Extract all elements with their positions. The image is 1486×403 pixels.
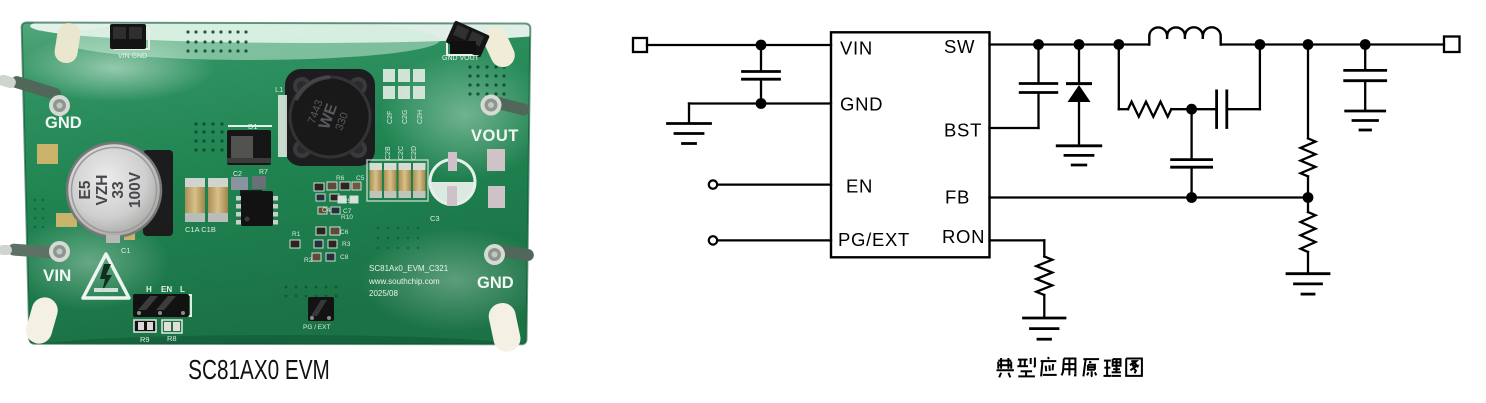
svg-text:C5: C5 [356, 175, 365, 182]
svg-text:C2G: C2G [402, 110, 409, 124]
svg-text:2025/08: 2025/08 [369, 289, 398, 298]
svg-text:R3: R3 [342, 241, 351, 248]
svg-text:GND VOUT: GND VOUT [442, 55, 480, 62]
svg-text:C2C: C2C [398, 146, 405, 160]
svg-text:VIN GND: VIN GND [118, 53, 147, 60]
svg-text:C4: C4 [322, 207, 331, 214]
svg-text:EN: EN [161, 285, 172, 294]
svg-text:R8: R8 [167, 334, 177, 343]
svg-text:VZH: VZH [94, 175, 111, 206]
svg-text:BST: BST [944, 119, 982, 140]
svg-text:E5: E5 [77, 180, 94, 199]
svg-text:R6: R6 [336, 175, 345, 182]
svg-text:SW: SW [944, 36, 975, 57]
svg-text:C1: C1 [121, 246, 131, 255]
svg-text:C2D: C2D [411, 146, 418, 160]
svg-text:C1A C1B: C1A C1B [185, 225, 216, 234]
svg-text:PG/EXT: PG/EXT [838, 229, 910, 250]
svg-text:L1: L1 [275, 85, 283, 94]
svg-text:C2: C2 [233, 171, 242, 178]
svg-text:RON: RON [942, 226, 985, 247]
svg-text:VIN: VIN [840, 37, 873, 58]
svg-text:GND: GND [840, 93, 883, 114]
svg-text:C2B: C2B [385, 146, 392, 160]
svg-text:R9: R9 [140, 335, 150, 344]
svg-text:C3: C3 [430, 214, 440, 223]
svg-text:R7: R7 [259, 169, 268, 176]
svg-text:R5: R5 [343, 198, 352, 205]
svg-text:GND: GND [45, 114, 82, 132]
svg-text:VOUT: VOUT [471, 127, 519, 145]
svg-text:R2: R2 [304, 257, 313, 264]
svg-text:SC81Ax0_EVM_C321: SC81Ax0_EVM_C321 [369, 264, 449, 273]
svg-text:C6: C6 [340, 229, 349, 236]
svg-text:33: 33 [110, 181, 127, 199]
svg-text:R10: R10 [341, 214, 353, 221]
svg-text:L: L [180, 285, 185, 294]
svg-text:PG / EXT: PG / EXT [303, 324, 330, 331]
svg-text:H: H [146, 285, 152, 294]
svg-text:R1: R1 [292, 231, 301, 238]
svg-text:GND: GND [477, 274, 514, 292]
svg-text:100V: 100V [127, 171, 144, 208]
svg-text:VIN: VIN [43, 266, 71, 285]
svg-text:C8: C8 [340, 254, 349, 261]
svg-text:C2H: C2H [417, 110, 424, 124]
svg-text:EN: EN [846, 176, 873, 197]
svg-text:D1: D1 [248, 122, 258, 131]
svg-text:www.southchip.com: www.southchip.com [368, 277, 440, 286]
svg-text:FB: FB [945, 187, 970, 208]
svg-text:C2F: C2F [387, 111, 394, 124]
